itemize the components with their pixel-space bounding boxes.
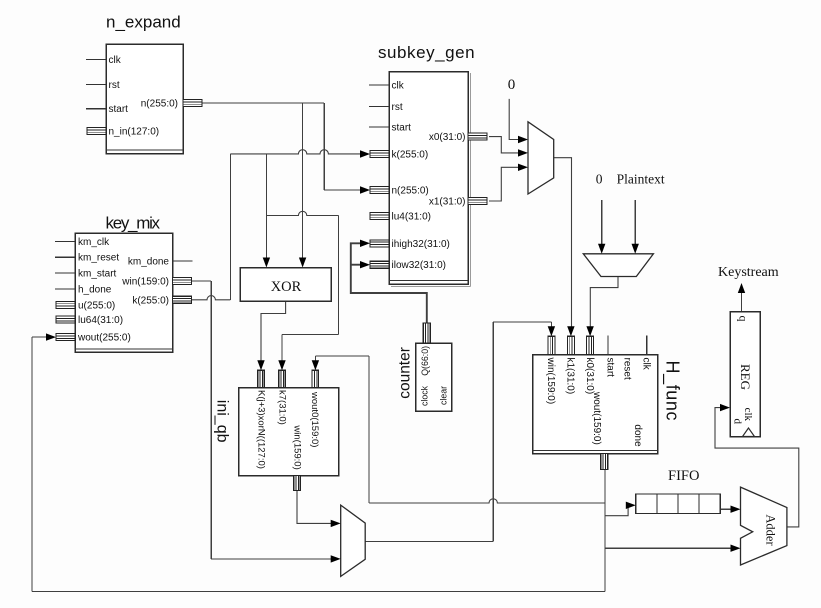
svg-text:k1(31:0): k1(31:0) [565, 358, 576, 395]
svg-text:ilow32(31:0): ilow32(31:0) [392, 260, 446, 271]
svg-text:k0(31:0): k0(31:0) [584, 358, 595, 395]
svg-text:clock: clock [420, 385, 430, 406]
svg-text:d: d [732, 419, 744, 425]
svg-text:km_done: km_done [128, 257, 170, 268]
svg-text:K(j+3)xorN((127:0): K(j+3)xorN((127:0) [256, 390, 267, 469]
svg-text:wout(159:0): wout(159:0) [591, 391, 602, 445]
svg-text:rst: rst [392, 102, 403, 113]
svg-text:n(255:0): n(255:0) [141, 99, 178, 110]
svg-text:Adder: Adder [764, 514, 778, 546]
svg-text:km_start: km_start [78, 269, 117, 280]
svg-text:n_expand: n_expand [106, 13, 181, 32]
svg-text:k(255:0): k(255:0) [392, 150, 429, 161]
svg-text:Keystream: Keystream [718, 265, 779, 280]
svg-text:clk: clk [641, 358, 652, 371]
svg-text:clear: clear [439, 386, 449, 405]
svg-text:key_mix: key_mix [106, 213, 161, 232]
svg-text:km_reset: km_reset [78, 253, 119, 264]
svg-text:Plaintext: Plaintext [617, 172, 665, 187]
svg-text:wout0(159:0): wout0(159:0) [309, 391, 320, 447]
svg-text:k7(31:0): k7(31:0) [277, 390, 288, 425]
svg-text:FIFO: FIFO [668, 468, 699, 484]
svg-text:win(159:0): win(159:0) [292, 424, 303, 469]
svg-text:subkey_gen: subkey_gen [378, 43, 475, 62]
svg-text:REG: REG [738, 364, 753, 390]
svg-text:H_func: H_func [661, 361, 682, 422]
svg-text:clk: clk [392, 81, 405, 92]
svg-text:XOR: XOR [271, 279, 302, 295]
svg-text:clk: clk [109, 55, 122, 66]
svg-text:x1(31:0): x1(31:0) [429, 197, 466, 208]
svg-text:start: start [392, 123, 412, 134]
svg-text:win(159:0): win(159:0) [121, 277, 169, 288]
svg-text:wout(255:0): wout(255:0) [77, 333, 131, 344]
svg-text:start: start [605, 358, 616, 378]
svg-text:0: 0 [596, 172, 603, 187]
svg-text:q: q [737, 316, 751, 322]
svg-text:counter: counter [397, 347, 414, 399]
svg-text:lu64(31:0): lu64(31:0) [78, 315, 123, 326]
svg-text:k(255:0): k(255:0) [132, 295, 169, 306]
svg-text:u(255:0): u(255:0) [78, 300, 115, 311]
svg-text:done: done [632, 424, 643, 447]
svg-text:start: start [109, 104, 129, 115]
svg-text:lu4(31:0): lu4(31:0) [392, 212, 431, 223]
svg-text:n(255:0): n(255:0) [392, 186, 429, 197]
svg-text:h_done: h_done [78, 285, 112, 296]
svg-text:km_clk: km_clk [78, 237, 110, 248]
svg-text:0: 0 [508, 77, 516, 93]
svg-text:x0(31:0): x0(31:0) [429, 132, 466, 143]
svg-text:n_in(127:0): n_in(127:0) [109, 127, 160, 138]
svg-text:win(159:0): win(159:0) [545, 357, 556, 405]
svg-text:Q(66:0): Q(66:0) [420, 346, 430, 376]
svg-text:ini_qb: ini_qb [214, 400, 231, 443]
svg-text:clk: clk [742, 408, 754, 422]
svg-text:reset: reset [622, 358, 633, 380]
svg-text:rst: rst [109, 80, 120, 91]
svg-text:ihigh32(31:0): ihigh32(31:0) [392, 239, 450, 250]
